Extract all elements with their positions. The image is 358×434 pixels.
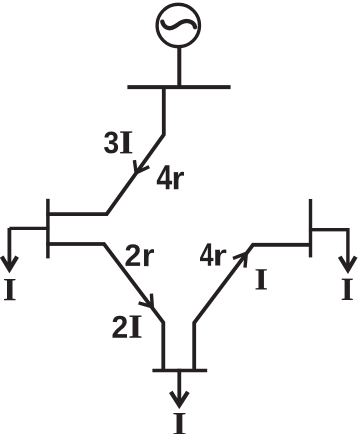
wire: bottom node up, diagonal 4r right branch, into right bar lead (194, 245, 312, 372)
label I bottom (173, 413, 185, 434)
AC source sine symbol (162, 21, 195, 28)
arrow I on right diagonal (233, 253, 246, 267)
label 3I (104, 131, 118, 153)
current arrow I right (340, 257, 356, 270)
label 4r (157, 165, 172, 189)
arrow 3I on diagonal (134, 160, 149, 173)
wire: top node down, diagonal 4r branch, into left bar top lead (46, 86, 164, 214)
wire source to top node bar (177, 47, 181, 89)
node bar top (127, 85, 230, 89)
node bar bottom (152, 369, 207, 373)
current arrow I left (7, 228, 11, 268)
wire: left bar bottom lead, diagonal 2r branch, down to bottom node (46, 244, 163, 372)
label 2r (126, 244, 141, 266)
AC source V1 (157, 4, 199, 46)
label 2I (113, 316, 128, 338)
wire right bar to right arrow corner (309, 230, 348, 269)
arrow 2I on diagonal (139, 294, 153, 307)
current arrow I bottom (177, 369, 181, 404)
node bar right (309, 199, 312, 257)
label I right-diagonal (256, 269, 267, 289)
label 4r right (200, 243, 213, 265)
label I left (4, 279, 16, 300)
wire left bar to left arrow (9, 227, 49, 230)
label I right (342, 279, 353, 300)
node bar left (46, 199, 50, 259)
